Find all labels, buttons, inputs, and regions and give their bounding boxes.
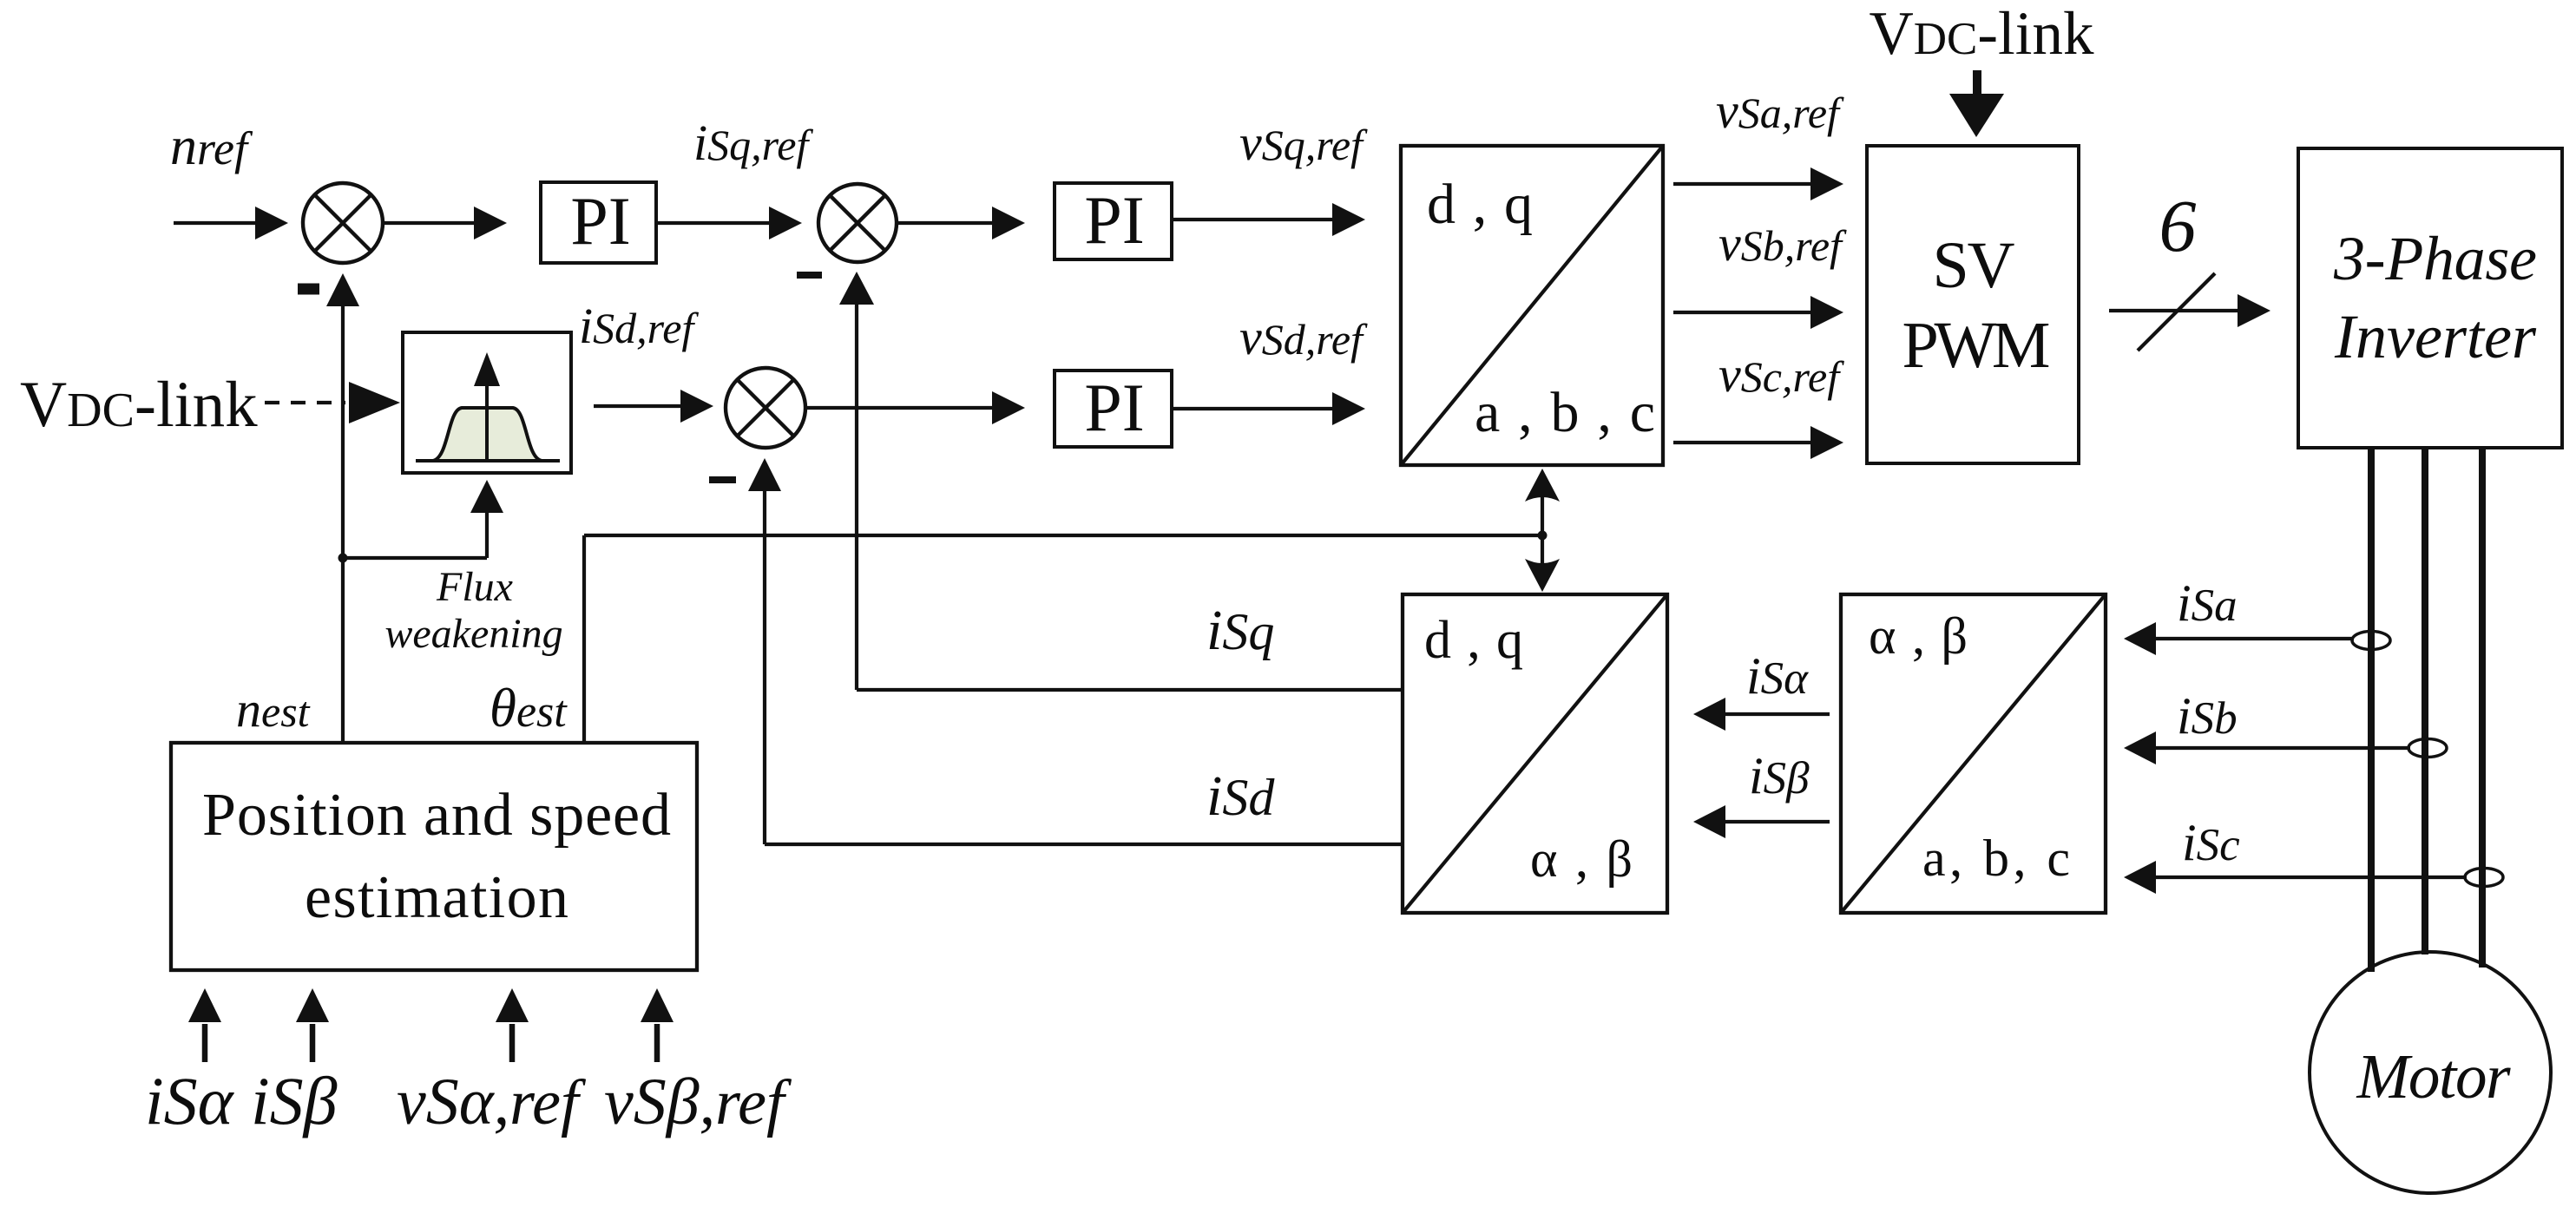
wire motor phase a — [2368, 448, 2375, 972]
flux curve fill — [433, 408, 542, 461]
node iSq,ref label — [693, 115, 813, 171]
wire S3 to PI3 — [805, 391, 1025, 424]
node vSbeta,ref bottom label — [604, 1066, 792, 1138]
wire PI2 to dq-abc block — [1172, 203, 1365, 236]
block Position and speed estimation — [171, 743, 697, 970]
wire iSc sensor to abc-alphabeta block — [2124, 861, 2467, 894]
node iSb label — [2177, 687, 2238, 745]
node vSd,ref label — [1239, 309, 1368, 365]
node iSalpha label — [1746, 647, 1809, 705]
node iSbeta label — [1749, 747, 1810, 804]
node junction dot theta bus — [1538, 531, 1548, 541]
svg-text:iSc: iSc — [2182, 814, 2240, 871]
wire branch to flux weakening input — [343, 480, 503, 558]
svg-text:iSq: iSq — [1206, 599, 1274, 662]
svg-text:nest: nest — [236, 681, 311, 738]
svg-text:iSα: iSα — [145, 1063, 235, 1138]
wire VDC-link dashed into flux weakening — [265, 382, 400, 423]
node theta-est label — [490, 678, 568, 738]
svg-text:PI: PI — [1084, 370, 1144, 445]
minus sign at S3 — [709, 476, 736, 483]
svg-text:iSα: iSα — [1746, 647, 1809, 705]
node VDC-link left label — [20, 369, 258, 441]
svg-text:PI: PI — [1084, 182, 1144, 258]
node nref label — [170, 117, 253, 176]
svg-text:PWM: PWM — [1902, 309, 2051, 382]
svg-text:d , q: d , q — [1427, 173, 1533, 236]
node iSd label — [1206, 764, 1275, 828]
svg-text:vSd,ref: vSd,ref — [1239, 309, 1368, 365]
node junction dot n-est branch — [338, 554, 348, 563]
node iSbeta bottom label — [251, 1063, 338, 1138]
svg-text:vSa,ref: vSa,ref — [1716, 82, 1844, 139]
block Motor — [2310, 952, 2551, 1193]
block abc to alphabeta transform — [1841, 594, 2106, 913]
svg-text:3-Phase: 3-Phase — [2333, 224, 2537, 293]
minus sign at S1 — [298, 284, 319, 295]
wire S2 to PI2 — [897, 207, 1025, 239]
svg-text:α , β: α , β — [1869, 607, 1968, 665]
block PI2 (q-axis current controller) — [1055, 182, 1172, 259]
svg-text:Inverter: Inverter — [2334, 302, 2537, 371]
wire vSb,ref to SVPWM — [1673, 296, 1843, 329]
svg-text:vSc,ref: vSc,ref — [1718, 346, 1844, 403]
wire theta-est horizontal bus — [584, 534, 1542, 537]
wire motor phase b — [2422, 448, 2428, 954]
svg-text:6: 6 — [2159, 184, 2197, 267]
svg-text:θest: θest — [490, 678, 568, 738]
block alphabeta to dq transform — [1403, 594, 1667, 913]
svg-text:weakening: weakening — [384, 611, 562, 657]
flux axis arrow — [485, 384, 489, 462]
node vSa,ref label — [1716, 82, 1844, 139]
wire vSc,ref to SVPWM — [1673, 426, 1843, 459]
svg-text:PI: PI — [570, 183, 630, 259]
wire iSa sensor to abc-alphabeta block — [2124, 622, 2354, 655]
node vSb,ref label — [1718, 215, 1847, 272]
svg-text:vSb,ref: vSb,ref — [1718, 215, 1847, 272]
node vSalpha,ref bottom label — [397, 1066, 587, 1138]
node iSa label — [2177, 574, 2238, 632]
svg-text:SV: SV — [1933, 229, 2015, 302]
svg-text:Flux: Flux — [436, 564, 513, 610]
svg-text:iSd,ref: iSd,ref — [579, 298, 699, 354]
wire iSbeta between transform blocks — [1693, 805, 1830, 838]
wire iSalpha between transform blocks — [1693, 698, 1830, 731]
wire VDC-link down arrow into SVPWM — [1949, 70, 2004, 137]
node vSc,ref label — [1718, 346, 1844, 403]
summing junction S3 (d current) — [726, 368, 805, 448]
current sensor a — [2352, 632, 2390, 650]
wire SVPWM to inverter with 6-slash — [2109, 273, 2270, 351]
svg-text:iSq,ref: iSq,ref — [693, 115, 813, 171]
wire nref input arrow — [174, 207, 288, 239]
wire iSb sensor to abc-alphabeta block — [2124, 731, 2410, 764]
node VDC-link top label — [1869, 0, 2094, 68]
flux curve baseline — [416, 459, 560, 462]
block flux weakening — [403, 332, 571, 473]
node iSalpha bottom label — [145, 1063, 235, 1138]
current sensor b — [2408, 739, 2447, 758]
wire vSa,ref to SVPWM — [1673, 167, 1843, 200]
wire theta-est vertical from estimator — [582, 535, 586, 743]
svg-text:VDC-link: VDC-link — [1869, 0, 2094, 68]
wire motor phase c — [2479, 448, 2486, 968]
wire iSalpha input arrow — [188, 988, 221, 1062]
wire theta-est bus vertical double arrow — [1525, 469, 1560, 592]
svg-text:vSβ,ref: vSβ,ref — [604, 1066, 792, 1138]
svg-text:estimation: estimation — [305, 864, 568, 931]
svg-text:vSα,ref: vSα,ref — [397, 1066, 587, 1138]
wire PI3 to dq-abc block — [1172, 392, 1365, 425]
block PI3 (d-axis current controller) — [1055, 370, 1172, 447]
node vSq,ref label — [1239, 115, 1368, 171]
svg-text:Motor: Motor — [2356, 1041, 2512, 1112]
svg-text:d , q: d , q — [1424, 611, 1523, 670]
wire PI1 to S2 — [656, 207, 802, 239]
block dq to abc transform — [1401, 146, 1663, 465]
node 6 label — [2159, 184, 2197, 267]
svg-text:iSb: iSb — [2177, 687, 2238, 745]
wire iSd feedback — [748, 458, 1403, 844]
wire iSq feedback — [839, 272, 1403, 690]
wire flux weakening to S3 — [594, 390, 713, 423]
svg-text:α , β: α , β — [1530, 830, 1633, 888]
wire vSalpha,ref input arrow — [496, 988, 529, 1062]
svg-text:Position and speed: Position and speed — [202, 782, 671, 849]
current sensor c — [2465, 869, 2503, 887]
node n-est label — [236, 681, 311, 738]
svg-text:iSβ: iSβ — [251, 1063, 338, 1138]
svg-text:iSa: iSa — [2177, 574, 2238, 632]
node iSd,ref label — [579, 298, 699, 354]
summing junction S1 (speed) — [303, 183, 383, 263]
node Flux weakening label — [384, 564, 562, 657]
node iSc label — [2182, 814, 2240, 871]
wire n-est feedback vertical — [326, 273, 359, 743]
svg-text:vSq,ref: vSq,ref — [1239, 115, 1368, 171]
wire iSbeta input arrow — [296, 988, 329, 1062]
svg-text:iSβ: iSβ — [1749, 747, 1810, 804]
minus sign at S2 — [797, 272, 822, 279]
wire S1 to PI1 — [384, 207, 507, 239]
svg-text:iSd: iSd — [1206, 764, 1275, 828]
summing junction S2 (q current) — [818, 184, 897, 262]
node iSq label — [1206, 599, 1274, 662]
svg-text:VDC-link: VDC-link — [20, 369, 258, 441]
block 3-Phase Inverter — [2298, 148, 2562, 448]
block PI1 (speed controller) — [541, 182, 656, 263]
block SV PWM — [1867, 146, 2079, 463]
svg-text:nref: nref — [170, 117, 253, 176]
wire vSbeta,ref input arrow — [641, 988, 674, 1062]
svg-text:a, b, c: a, b, c — [1922, 830, 2070, 887]
